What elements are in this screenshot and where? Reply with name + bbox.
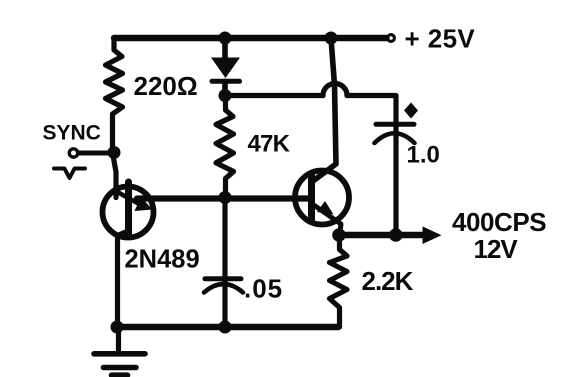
svg-text:12V: 12V (474, 234, 519, 264)
svg-text:220Ω: 220Ω (134, 71, 198, 101)
svg-text:+ 25V: + 25V (405, 24, 476, 54)
svg-text:2N489: 2N489 (125, 246, 200, 274)
svg-text:47K: 47K (248, 131, 291, 158)
svg-text:2.2K: 2.2K (362, 266, 414, 296)
svg-text:.05: .05 (244, 274, 283, 304)
svg-text:1.0: 1.0 (407, 142, 440, 169)
svg-text:SYNC: SYNC (43, 122, 101, 145)
svg-text:400CPS: 400CPS (452, 207, 546, 237)
